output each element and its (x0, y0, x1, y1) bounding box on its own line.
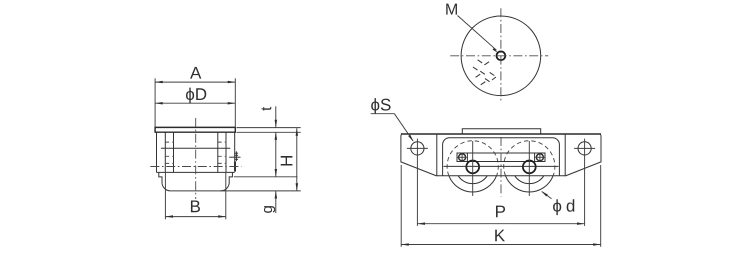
leader line phi-S (371, 113, 395, 115)
wheel circle top view (461, 16, 541, 96)
side view top plate (155, 127, 235, 132)
front view left ear outline (401, 134, 437, 176)
right wheel visible arc (506, 176, 554, 192)
leader line phi-d (542, 192, 552, 199)
side view axle centerline (150, 166, 241, 168)
front view axle horizontal line (444, 165, 559, 167)
left axle (466, 161, 479, 174)
side view hidden dashes in right channel (217, 141, 226, 143)
side view hidden dashes in left channel (165, 141, 174, 143)
left wheel vertical centerline (472, 141, 474, 196)
side view mid horizontal line (161, 147, 230, 149)
dimension A extension lines (154, 78, 156, 127)
dimension K extension lines (400, 165, 402, 247)
top view vertical centerline (500, 8, 502, 102)
front view vertical centerline (500, 137, 502, 197)
axle bar (457, 153, 545, 162)
left wheel inner arc (458, 176, 487, 184)
side view wheel bottom edge and extension line (171, 190, 301, 192)
label g (264, 206, 275, 213)
side view inner side-plate lines (164, 132, 166, 172)
plate bottom extension line right (237, 131, 301, 133)
dimension B extension lines (164, 172, 166, 219)
grease nipple on right side (229, 156, 240, 158)
top view horizontal centerline (450, 55, 548, 57)
leader line M (458, 16, 497, 51)
label A (190, 67, 201, 79)
right hole horizontal centerline (574, 147, 595, 149)
front view housing bottom edge (437, 175, 565, 177)
right wheel inner arc (515, 176, 544, 184)
label P (496, 206, 505, 218)
dimension g line (275, 191, 277, 213)
label B (191, 201, 200, 213)
left hole horizontal centerline (407, 147, 428, 149)
plate top extension line right (237, 127, 301, 129)
left wheel visible arc (449, 176, 497, 192)
left hole vertical centerline / P extension (416, 139, 418, 226)
side view vertical centerline (195, 118, 197, 199)
label t (262, 107, 272, 111)
dimension t line (275, 106, 277, 127)
right wheel vertical centerline (528, 141, 530, 196)
front view housing outline (443, 138, 560, 176)
side view wheel profile (159, 172, 233, 191)
label K (495, 230, 505, 242)
dimension P line (417, 223, 584, 225)
dimension K line (401, 244, 601, 246)
front view top edge (401, 133, 601, 135)
right hole vertical centerline / P extension (584, 139, 586, 226)
front view raised boss (462, 129, 540, 134)
dimension A line (155, 81, 235, 83)
side view body outline (157, 132, 235, 172)
label phi-d (553, 199, 561, 215)
right axle (523, 161, 536, 174)
hub bottom extension line right (234, 176, 298, 178)
dimension H line (296, 128, 298, 191)
right screw (536, 154, 543, 161)
dimension phi-D line (155, 102, 235, 104)
left wheel hidden circle (447, 141, 498, 176)
label phi-S (371, 98, 379, 114)
label phi-D (186, 88, 194, 104)
right wheel hidden circle (504, 141, 555, 176)
front view right ear outline (565, 134, 601, 176)
axle hole top view (497, 51, 506, 60)
label M (446, 4, 457, 15)
right mounting hole (578, 142, 591, 155)
label H (281, 156, 293, 165)
knurl hatch marks (478, 60, 483, 63)
left screw (459, 154, 466, 161)
left mounting hole (411, 142, 424, 155)
dimension B line (165, 216, 225, 218)
